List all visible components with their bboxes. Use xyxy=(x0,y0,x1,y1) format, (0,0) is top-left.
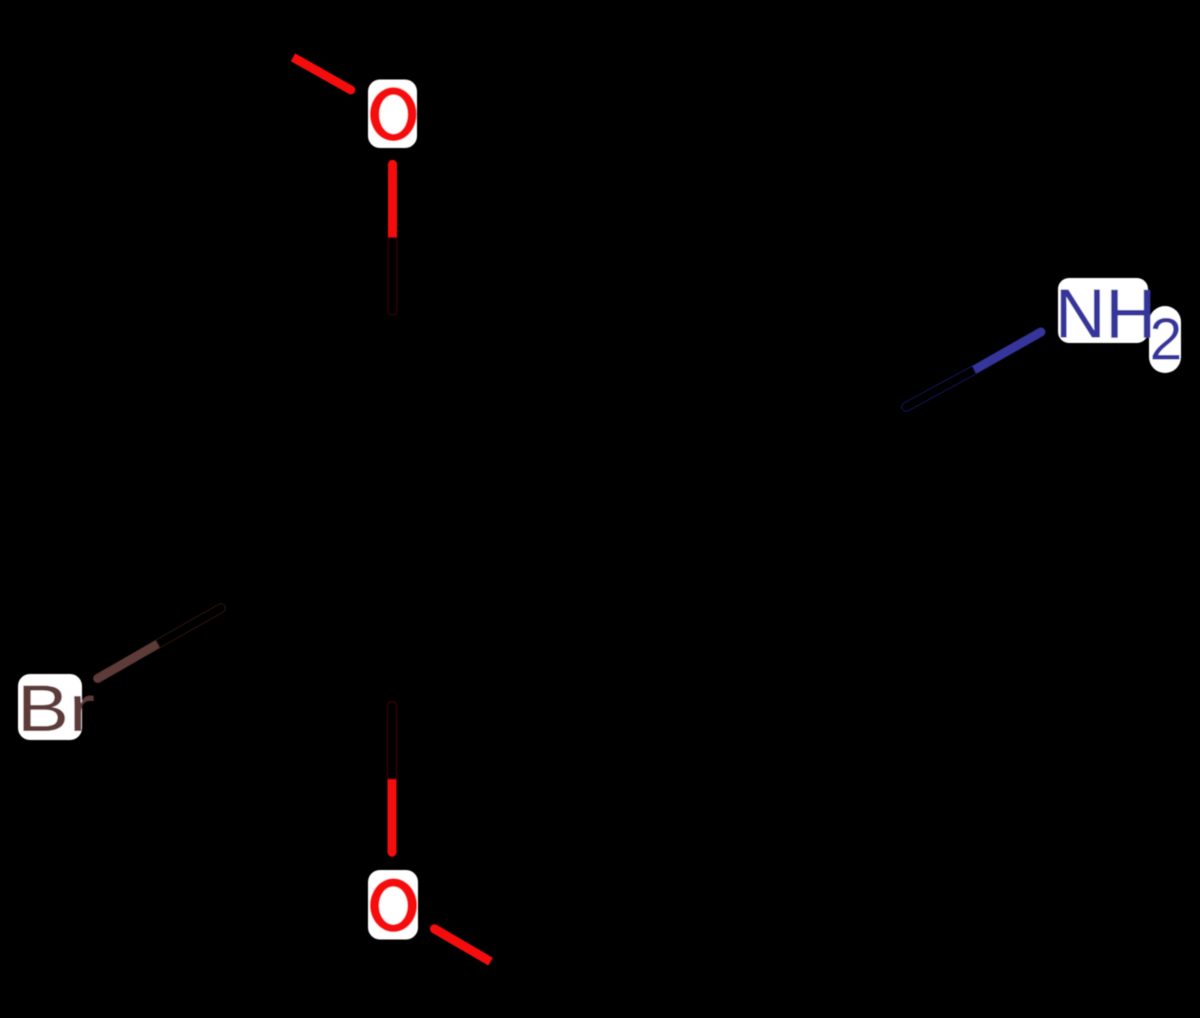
ring bond C2-C3 xyxy=(226,316,393,412)
ring bond C5-C6 xyxy=(392,604,559,701)
svg-text:Br: Br xyxy=(17,671,95,745)
svg-text:2: 2 xyxy=(1150,306,1183,372)
bond C8-N carbon half (dark outline) xyxy=(902,366,976,411)
atom label NH2 background (NH box) xyxy=(1058,278,1148,343)
chain bond C1-C7 xyxy=(559,315,735,412)
chain bond C7-C8 xyxy=(735,315,906,407)
ring bond C6-C1 xyxy=(554,412,563,604)
atom label NH2 background (subscript 2 box) xyxy=(1149,306,1181,373)
bond C8-N nitrogen half (blue) xyxy=(972,328,1046,374)
bond C4-Br carbon half (dark outline) xyxy=(156,604,226,648)
bond CH3-O1 methyl half (red, top methoxy) xyxy=(291,53,356,94)
atom label O1 glyph (red O) xyxy=(370,87,417,141)
ring bond C4-C5 xyxy=(225,605,392,701)
atom label Br background xyxy=(18,674,82,740)
bond O1-C2 carbon half (dark outline) xyxy=(388,238,397,315)
bond O2-CH3 oxygen half (red, bottom methyl) xyxy=(430,924,493,965)
ring bond C3-C4 xyxy=(225,412,226,605)
bond C4-Br bromine half (brown) xyxy=(93,640,160,683)
bond O1-C2 oxygen half (red) xyxy=(388,160,397,238)
atom label O2 background (bottom methoxy) xyxy=(368,870,418,940)
bond C5-O2 oxygen half (red, bottom methoxy) xyxy=(388,779,397,857)
ring bond C1-C2 xyxy=(393,316,559,412)
svg-text:NH: NH xyxy=(1055,275,1156,353)
atom label O1 background (top methoxy) xyxy=(368,80,417,149)
bond C5-O2 carbon half (dark outline) xyxy=(388,702,397,780)
atom label O2 glyph (red O) xyxy=(370,878,417,932)
